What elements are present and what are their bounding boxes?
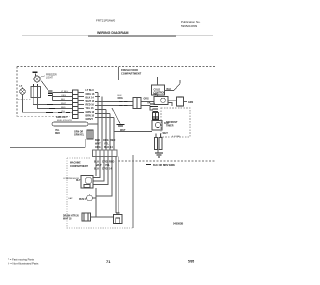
svg-text:5/95: 5/95 [188, 260, 194, 264]
wire heater to ground [157, 150, 159, 154]
node freezer compartment boundary (dashed) [17, 67, 215, 117]
plug power cord P1 [114, 213, 123, 224]
node fresh food bottom boundary (dashed) [118, 160, 215, 162]
svg-text:BLK: BLK [118, 95, 123, 97]
node left compartment boundary line [10, 147, 85, 149]
node ground wire diagonal [112, 108, 120, 124]
wire lamp2 down and right [23, 94, 47, 112]
svg-text:545583B: 545583B [173, 223, 183, 226]
compressor motor M1 with relay [81, 176, 93, 189]
svg-text:COMPARTMENT: COMPARTMENT [121, 72, 142, 76]
svg-text:WHT: WHT [120, 129, 126, 132]
wire switch diagonal [41, 81, 48, 90]
wire verticals descending to machine compartment [95, 93, 114, 151]
svg-text:ORG: ORG [144, 99, 149, 101]
wire main runs right of label stack [95, 93, 154, 111]
svg-text:LT BLU: LT BLU [61, 91, 69, 93]
svg-text:ORG: ORG [102, 167, 108, 170]
svg-text:RUN C: RUN C [79, 199, 87, 201]
svg-text:OR: OR [147, 102, 151, 104]
svg-text:WHT 14: WHT 14 [86, 100, 95, 103]
svg-text:ORG: ORG [95, 146, 101, 149]
thermostat defrost thermostat [153, 113, 159, 120]
lamp freezer light [34, 74, 40, 83]
protector overload OL1 [82, 213, 91, 221]
svg-text:WHT 18: WHT 18 [63, 219, 72, 221]
capacitor run capacitor C1 [87, 195, 93, 201]
svg-text:BLK: BLK [94, 167, 99, 170]
lamp freezer light 2 [20, 88, 25, 95]
svg-text:ORG: ORG [118, 98, 123, 100]
wire cold control bottom stub [157, 95, 159, 97]
connector inline C5 [150, 104, 155, 107]
svg-text:RED: RED [55, 133, 60, 135]
wire WHT run to heater [114, 131, 152, 133]
ground cabinet ground [117, 125, 125, 127]
node dark cluster labels [152, 117, 159, 119]
svg-text:BLK OR BRN WIRE: BLK OR BRN WIRE [153, 164, 175, 167]
node legend wire note [146, 164, 151, 166]
svg-text:MACHINE: MACHINE [70, 162, 81, 165]
wire power cord feed [118, 157, 120, 213]
node machine compartment box [67, 158, 133, 228]
timer adaptive defrost control box [161, 108, 190, 137]
svg-text:BLK: BLK [104, 146, 109, 149]
switch fresh food door switch [174, 84, 180, 91]
wire J1 right side stubs [78, 93, 84, 113]
wire freezer dashed stub [18, 98, 31, 100]
node wire labels above J5 [95, 139, 115, 149]
heater defrost heater [155, 134, 163, 150]
svg-text:DRAIN HTR 20: DRAIN HTR 20 [63, 214, 80, 217]
connector block J5 [93, 150, 118, 157]
heater mullion heater [52, 122, 98, 126]
wire cold control top stub [157, 77, 159, 85]
svg-text:WHT: WHT [61, 103, 67, 105]
wire compressor feeds [93, 170, 112, 196]
wire overload to power cord [91, 216, 114, 218]
svg-text:BLK 14: BLK 14 [86, 96, 95, 99]
svg-text:ORG 16: ORG 16 [86, 93, 95, 96]
svg-text:WHT: WHT [163, 133, 169, 135]
svg-text:ORG: ORG [61, 95, 66, 97]
lamp fresh food light [177, 97, 184, 106]
svg-text:GRN/Y: GRN/Y [86, 118, 94, 121]
node fresh food light cluster [154, 97, 168, 105]
svg-text:FRESH FOOD: FRESH FOOD [121, 68, 138, 72]
svg-text:COMPARTMENT: COMPARTMENT [70, 165, 89, 168]
node right column connector stack [153, 107, 159, 112]
wire c4 to boundary [84, 139, 86, 148]
svg-text:GRN OR Y: GRN OR Y [56, 116, 68, 119]
node wire color labels left of J1 [61, 91, 69, 113]
ground heater ground [155, 153, 163, 157]
thermostat cold control [152, 85, 165, 95]
svg-text:RED: RED [61, 107, 66, 109]
svg-text:14: 14 [110, 146, 113, 149]
svg-text:BRN 18: BRN 18 [86, 114, 95, 117]
connector J1 multi-pin [73, 90, 79, 119]
svg-text:GRN 16: GRN 16 [86, 111, 95, 114]
svg-text:BLK: BLK [61, 99, 66, 101]
svg-text:RED 16: RED 16 [86, 104, 95, 107]
motor evaporator fan [152, 121, 162, 131]
connector C4 [87, 130, 93, 139]
svg-text:FREEZER: FREEZER [46, 75, 57, 77]
svg-text:LIGHT: LIGHT [46, 78, 53, 80]
node fresh food compartment label box [118, 67, 120, 80]
connector freezer harness marks A [48, 91, 53, 96]
svg-text:71: 71 [106, 259, 111, 264]
wire freezer harness to connector [33, 93, 72, 113]
svg-text:WIRING DIAGRAM: WIRING DIAGRAM [97, 31, 129, 35]
svg-text:MULLION HTR: MULLION HTR [57, 120, 72, 122]
connector freezer harness marks B [46, 105, 70, 113]
svg-text:RLY: RLY [76, 180, 81, 182]
svg-text:CAP: CAP [68, 197, 73, 200]
svg-text:COMPRESSOR: COMPRESSOR [63, 178, 79, 180]
node wire labels below J5 [94, 161, 114, 171]
wire cold control to switch [165, 90, 175, 92]
svg-text:GRN OR: GRN OR [74, 132, 84, 134]
svg-text:YEL: YEL [55, 130, 60, 132]
svg-text:ORG: ORG [153, 94, 158, 96]
svg-text:LT BLU: LT BLU [86, 89, 95, 92]
svg-text:* = Fast-moving Parts: * = Fast-moving Parts [8, 258, 35, 262]
svg-text:5995210809: 5995210809 [181, 24, 197, 28]
svg-text:TIMER: TIMER [166, 124, 174, 127]
svg-text:FRT21P5AW0: FRT21P5AW0 [96, 19, 116, 23]
connector plug P3 [133, 98, 141, 109]
wire light cluster links [168, 100, 177, 106]
switch freezer door light switch S1 [31, 84, 41, 98]
connector inline C2 [119, 102, 128, 106]
svg-text:BLK: BLK [167, 89, 172, 91]
svg-text:YEL 16: YEL 16 [86, 107, 95, 110]
svg-text:† = Non-Illuminated Parts: † = Non-Illuminated Parts [8, 262, 39, 266]
svg-text:GRN/YEL: GRN/YEL [74, 135, 85, 137]
node wire color label stack right of J1 [86, 89, 95, 121]
wire J5 down wires [96, 157, 116, 214]
svg-text:COLD: COLD [154, 89, 161, 91]
svg-text:GRN: GRN [188, 102, 193, 104]
svg-text:4 COND: 4 COND [172, 136, 181, 138]
wire header rule [22, 35, 213, 37]
svg-text:RED: RED [110, 139, 115, 142]
wire cap links [93, 188, 97, 217]
